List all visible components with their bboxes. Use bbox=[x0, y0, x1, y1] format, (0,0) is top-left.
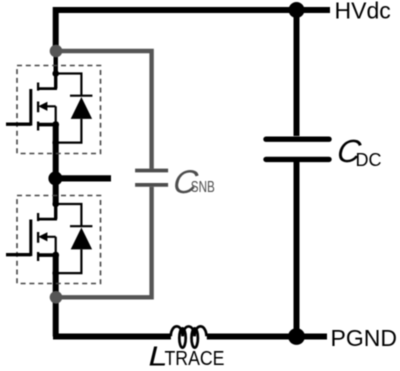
inductor LTRACE bbox=[171, 326, 207, 347]
capacitor CDC bbox=[266, 139, 329, 159]
wire: phase output stub bbox=[55, 175, 111, 181]
wire: bottom bus PGND bbox=[53, 334, 327, 340]
D2 triangle bbox=[71, 228, 92, 250]
wire: Q1 drain feed bbox=[54, 51, 58, 74]
Q2 source lead (pin S) bbox=[38, 253, 56, 257]
transistor Q2 (bottom MOSFET) bbox=[6, 204, 57, 261]
node: Q1 source junction bbox=[52, 121, 59, 128]
Q2 channel segments bbox=[37, 213, 39, 261]
dashed enclosure: top switch module bbox=[17, 66, 101, 154]
Q1 source lead (pin S) bbox=[38, 123, 56, 127]
node: PGND junction bbox=[288, 328, 305, 345]
wire: right rail upper (HVdc to CDC) bbox=[294, 10, 300, 136]
dashed enclosure: bottom switch module bbox=[17, 196, 101, 284]
D2 anode/cathode wiring bbox=[56, 204, 82, 273]
diode D2 (Q2 body diode) bbox=[56, 204, 93, 273]
diode D1 (Q1 body diode) bbox=[56, 74, 93, 143]
node: Q2 diode bottom junction bbox=[52, 270, 59, 277]
Q2 body connection with arrow bbox=[45, 237, 56, 255]
wire: HVdc top bus bbox=[56, 7, 330, 13]
svg-text:SNB: SNB bbox=[191, 179, 215, 196]
Q2 gate lead (pin G) bbox=[6, 253, 31, 256]
D2 cathode bar bbox=[70, 225, 92, 227]
capacitor CSNB bbox=[135, 171, 168, 185]
wire: left rail lower segment (Q2 source to bottom bus) bbox=[53, 255, 59, 337]
Q2 drain lead bbox=[54, 204, 57, 219]
node: Q1 drain junction bbox=[52, 70, 59, 77]
Q1 body connection with arrow bbox=[45, 106, 56, 124]
svg-text:HVdc: HVdc bbox=[335, 0, 391, 24]
Q1 channel segments bbox=[37, 83, 39, 131]
svg-text:TRACE: TRACE bbox=[165, 348, 225, 370]
node: phase mid-point junction bbox=[48, 171, 62, 185]
D1 anode/cathode wiring bbox=[56, 74, 82, 143]
wire: snubber loop top (gray) bbox=[56, 51, 152, 169]
node: snubber top junction (gray) bbox=[50, 45, 63, 58]
node: Q2 drain junction bbox=[52, 201, 59, 208]
wire: left rail middle segment (Q1 source to Q2 drain) bbox=[53, 124, 59, 205]
Q1 gate lead (pin G) bbox=[6, 122, 31, 125]
Q1 drain lead bbox=[54, 74, 57, 89]
wire: snubber loop bottom (gray) bbox=[56, 187, 152, 297]
wire: right rail lower (CDC to PGND) bbox=[294, 162, 300, 337]
svg-text:PGND: PGND bbox=[331, 325, 397, 351]
node: Q2 source junction bbox=[52, 252, 59, 259]
transistor Q1 (top MOSFET) bbox=[6, 74, 57, 131]
svg-text:DC: DC bbox=[356, 150, 382, 170]
D1 cathode bar bbox=[70, 95, 92, 97]
node: snubber bottom junction (gray) bbox=[50, 291, 63, 304]
node: HVdc junction bbox=[289, 2, 305, 18]
node: Q1 diode bottom junction bbox=[52, 139, 59, 146]
Q1 gate bar bbox=[29, 89, 32, 126]
D1 triangle bbox=[71, 97, 92, 119]
wire: left rail upper segment bbox=[53, 7, 59, 52]
Q2 gate bar bbox=[29, 220, 32, 257]
